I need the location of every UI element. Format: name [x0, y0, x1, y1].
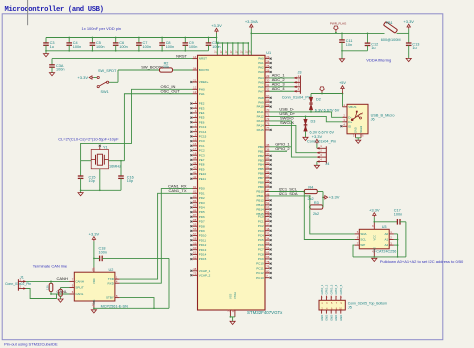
power +5V (VBUS)	[339, 81, 346, 107]
wire VDD stub	[230, 42, 235, 73]
wire R4/R3 to +3.3V	[317, 192, 324, 208]
pin PB12 (right 51)	[256, 197, 271, 203]
svg-text:GND: GND	[320, 315, 324, 321]
svg-text:PD10: PD10	[199, 234, 207, 238]
wire D2 to VBUS	[311, 93, 343, 95]
svg-text:58: 58	[193, 237, 197, 241]
svg-text:A2: A2	[385, 243, 389, 247]
svg-text:PB0: PB0	[258, 145, 264, 149]
wire CANL	[26, 289, 70, 299]
svg-text:PE2: PE2	[199, 102, 205, 106]
pin PD5 (left 86)	[190, 208, 205, 214]
svg-text:26: 26	[266, 68, 270, 72]
svg-text:J4: J4	[325, 162, 329, 166]
svg-text:SW1: SW1	[101, 90, 109, 94]
svg-text:VSS: VSS	[372, 247, 376, 252]
wire SPLIT	[61, 288, 70, 290]
svg-text:PC13: PC13	[256, 276, 264, 280]
svg-text:PC0: PC0	[258, 215, 264, 219]
svg-text:66: 66	[266, 255, 270, 259]
capacitor C3A	[49, 59, 64, 73]
svg-text:67: 67	[266, 94, 270, 98]
pin PA15 (right 77)	[257, 126, 272, 132]
svg-text:16: 16	[266, 218, 270, 222]
pin PD2 (left 83)	[190, 194, 205, 200]
svg-text:U2: U2	[109, 268, 114, 272]
svg-text:J3: J3	[298, 70, 302, 74]
svg-text:79: 79	[266, 265, 270, 269]
pin PD1 (left 82)	[193, 190, 205, 196]
svg-text:VBUS: VBUS	[348, 105, 356, 109]
wire VDD stub	[235, 42, 240, 73]
svg-text:100n: 100n	[394, 212, 402, 216]
svg-text:12: 12	[193, 86, 197, 90]
svg-text:+3.3V: +3.3V	[369, 207, 380, 212]
power +3.3V (VDD rail)	[211, 23, 222, 38]
wire crystal row	[81, 160, 125, 162]
svg-text:GPIO_5: GPIO_5	[339, 284, 343, 294]
wire VDD stub	[215, 42, 220, 73]
svg-text:PB11: PB11	[257, 194, 264, 198]
svg-text:100n: 100n	[189, 45, 197, 49]
power +3.3V (SW1)	[77, 75, 93, 80]
svg-text:PD12: PD12	[199, 243, 207, 247]
svg-text:PB1: PB1	[258, 149, 264, 153]
pin PC13 (left 7)	[190, 123, 206, 129]
pin PC2 (right 17)	[258, 222, 272, 228]
wire VDDA filter line	[251, 32, 384, 34]
svg-text:88: 88	[193, 218, 197, 222]
svg-text:1u: 1u	[371, 46, 375, 50]
note Pin-out	[4, 342, 58, 347]
svg-text:CANH: CANH	[75, 280, 84, 284]
wire VDD top rail	[46, 37, 217, 39]
pin PC14 (left 8)	[190, 128, 206, 134]
svg-text:100n: 100n	[96, 45, 104, 49]
ground (crystal)	[78, 190, 83, 196]
svg-text:72: 72	[266, 117, 270, 121]
stray vertical line top-left	[27, 0, 29, 25]
pin PD11 (left 58)	[190, 237, 206, 243]
svg-text:PC2: PC2	[258, 224, 264, 228]
svg-text:PD4: PD4	[199, 206, 205, 210]
pin PB15 (right 54)	[256, 210, 271, 216]
svg-text:+5V: +5V	[339, 81, 346, 85]
svg-text:OSC_OUT: OSC_OUT	[161, 89, 181, 94]
connector J1 Conn_01x02_Pin	[5, 276, 31, 291]
svg-text:VCAP_1: VCAP_1	[199, 269, 211, 273]
svg-text:10p: 10p	[89, 179, 95, 183]
svg-text:65: 65	[266, 251, 270, 255]
svg-text:47: 47	[266, 188, 270, 192]
svg-text:PD5: PD5	[199, 210, 205, 214]
svg-text:GND: GND	[334, 315, 338, 321]
svg-text:PE8: PE8	[199, 163, 205, 167]
svg-text:100n: 100n	[212, 45, 220, 49]
pin PC12 (right 80)	[256, 269, 272, 275]
wire SDA down	[309, 196, 355, 234]
connector J5 Conn_02x05_Top_Bottom	[319, 284, 387, 320]
pin PA12 (right 71)	[257, 111, 296, 118]
pin VREF+ (left 21)	[190, 78, 209, 84]
svg-text:PB3: PB3	[258, 158, 264, 162]
svg-text:PD1: PD1	[199, 191, 205, 195]
wire VDD stub	[220, 42, 225, 73]
svg-text:GPIO_1: GPIO_1	[320, 284, 324, 294]
svg-text:600@100M: 600@100M	[381, 38, 401, 42]
label NRST	[176, 53, 187, 58]
svg-text:FB1: FB1	[386, 21, 393, 25]
svg-text:D2: D2	[316, 98, 321, 102]
svg-text:GND: GND	[354, 127, 358, 133]
svg-text:17: 17	[193, 147, 197, 151]
pin PA10 (right 69)	[257, 103, 272, 109]
svg-text:78: 78	[266, 260, 270, 264]
svg-text:WP: WP	[360, 243, 365, 247]
ground (D3)	[303, 137, 308, 140]
svg-text:PA15: PA15	[257, 128, 264, 132]
wire SWCLK	[270, 125, 317, 152]
svg-text:CANH: CANH	[57, 276, 68, 281]
svg-text:90: 90	[266, 161, 270, 165]
svg-text:PB12: PB12	[256, 199, 264, 203]
pin PB11 (right 48)	[257, 191, 298, 198]
note Terminate CAN line	[33, 264, 68, 269]
pin PE4 (left 3)	[190, 109, 205, 115]
note 1x 100nF per VDD pin	[82, 26, 122, 31]
svg-text:+3.3V: +3.3V	[77, 75, 88, 80]
pin PC4 (right 33)	[258, 232, 272, 238]
pin PD13 (left 60)	[190, 246, 206, 252]
wire USB_D+	[270, 116, 343, 122]
svg-text:PE3: PE3	[199, 106, 205, 110]
capacitor C7	[136, 37, 151, 52]
pin PC3 (right 18)	[258, 227, 272, 233]
svg-text:60: 60	[193, 246, 197, 250]
svg-text:VREF+: VREF+	[199, 80, 209, 84]
capacitor C11	[339, 33, 352, 51]
svg-text:PH1: PH1	[199, 92, 205, 96]
svg-text:30: 30	[266, 79, 270, 83]
capacitor C9	[183, 37, 198, 52]
svg-text:PA5: PA5	[258, 80, 264, 84]
pin PB8 (right 95)	[258, 179, 272, 185]
wire FB1 to +3.3V	[397, 32, 409, 34]
svg-text:PD6: PD6	[199, 215, 205, 219]
svg-text:PA10: PA10	[257, 105, 264, 109]
svg-text:VSSA: VSSA	[233, 292, 237, 299]
pin PA3 (right 26)	[258, 68, 271, 74]
svg-text:39: 39	[193, 161, 197, 165]
svg-text:PD13: PD13	[199, 248, 207, 252]
label CANH	[57, 276, 68, 281]
ground (U2)	[91, 310, 96, 313]
svg-text:96: 96	[266, 183, 270, 187]
svg-text:86: 86	[193, 208, 197, 212]
wire USB_D-	[270, 111, 343, 117]
pin PC7 (right 64)	[258, 246, 272, 252]
wire STBY	[120, 298, 154, 309]
svg-text:56: 56	[193, 227, 197, 231]
svg-text:U3: U3	[382, 225, 387, 229]
capacitor C16	[118, 161, 134, 191]
svg-text:69: 69	[266, 103, 270, 107]
svg-text:GPIO_2: GPIO_2	[325, 284, 329, 294]
svg-text:6.3V 6.67V 6V: 6.3V 6.67V 6V	[315, 108, 340, 112]
svg-text:R4: R4	[308, 185, 313, 189]
pin PB14 (right 53)	[256, 206, 271, 212]
pin PC1 (left 16)	[190, 142, 205, 148]
wire +3.3V stem to VDD bus	[216, 38, 218, 44]
svg-text:PD3: PD3	[199, 201, 205, 205]
ground (C13)	[406, 58, 411, 61]
svg-text:41: 41	[193, 170, 197, 174]
svg-text:PB5: PB5	[258, 167, 264, 171]
svg-text:48: 48	[193, 267, 197, 271]
connector J3 Conn_01x04_Pin	[282, 70, 311, 99]
svg-text:37: 37	[266, 152, 270, 156]
svg-text:PB8: PB8	[258, 181, 264, 185]
wire VDD stub	[225, 42, 230, 73]
pin PE3 (left 2)	[190, 105, 205, 111]
capacitor C17	[374, 208, 406, 224]
svg-text:CL=2*(CL0-Cs)=2*(10-5)pF+10pF: CL=2*(CL0-Cs)=2*(10-5)pF+10pF	[58, 137, 119, 142]
pin PB2 (right 37)	[258, 152, 272, 158]
wire VDD pin bus	[217, 42, 249, 44]
svg-text:PC14: PC14	[199, 130, 207, 134]
wire I2C1_SCL	[270, 191, 306, 193]
svg-text:91: 91	[266, 165, 270, 169]
pin VCAP_1 (left 48)	[190, 267, 210, 273]
svg-text:PB10: PB10	[256, 190, 264, 194]
wire crystal gnd rail	[80, 189, 121, 191]
power +3.3V (after FB1)	[403, 19, 414, 33]
CAN transceiver U2 MCP2561	[70, 267, 129, 308]
crystal Y1	[91, 145, 121, 191]
wire ADC_1	[270, 77, 295, 79]
svg-text:+3.3VA: +3.3VA	[245, 19, 258, 24]
svg-text:PD9: PD9	[199, 229, 205, 233]
wire ADC_4	[270, 90, 295, 92]
svg-text:PE4: PE4	[199, 111, 205, 115]
svg-text:18: 18	[266, 227, 270, 231]
svg-text:CAT24C256: CAT24C256	[376, 249, 396, 253]
svg-text:PA1: PA1	[258, 61, 264, 65]
wire ADC_2	[270, 81, 295, 83]
svg-text:GPIO_4: GPIO_4	[334, 284, 338, 294]
svg-text:34: 34	[266, 236, 270, 240]
svg-text:21: 21	[193, 78, 197, 82]
pin PA13 (right 72)	[257, 116, 294, 123]
note CL formula	[58, 137, 119, 142]
svg-text:100n: 100n	[73, 45, 81, 49]
pin PA14 (right 76)	[257, 120, 295, 127]
pin PC9 (right 66)	[258, 255, 272, 261]
svg-text:82: 82	[193, 190, 197, 194]
ground (SWD pin4)	[314, 162, 319, 169]
pin PH1 (left 13)	[193, 90, 205, 96]
svg-text:PA13: PA13	[257, 119, 264, 123]
svg-text:10p: 10p	[127, 179, 133, 183]
svg-text:33: 33	[266, 232, 270, 236]
pin PE6 (left 5)	[190, 119, 205, 125]
label CAN1_TX	[168, 188, 186, 193]
svg-text:77: 77	[266, 126, 270, 130]
svg-text:PC4: PC4	[258, 234, 264, 238]
USB connector J6 USB_B_Micro	[340, 103, 394, 140]
pin PA4 (right 29)	[258, 73, 285, 80]
svg-text:61: 61	[193, 251, 197, 255]
note VDDA filtering	[366, 58, 391, 63]
ground below C3	[43, 50, 48, 57]
svg-text:25: 25	[266, 64, 270, 68]
capacitor C10	[206, 37, 221, 51]
svg-text:SDA: SDA	[360, 232, 366, 236]
svg-text:A0: A0	[385, 232, 389, 236]
ground (J6)	[356, 140, 361, 143]
pin PA1 (right 24)	[258, 59, 271, 65]
wire ADC_3	[270, 86, 295, 88]
svg-text:PD8: PD8	[199, 224, 205, 228]
wire SWDIO	[270, 121, 317, 157]
svg-text:PA0: PA0	[258, 57, 264, 61]
svg-text:PC0: PC0	[199, 139, 205, 143]
svg-text:93: 93	[266, 174, 270, 178]
svg-text:63: 63	[266, 241, 270, 245]
svg-text:76: 76	[266, 122, 270, 126]
svg-text:PB14: PB14	[256, 207, 264, 211]
svg-text:GPIO_3: GPIO_3	[329, 284, 333, 294]
pin PA8 (right 67)	[258, 94, 271, 100]
label CANL	[57, 289, 68, 294]
svg-text:31: 31	[266, 83, 270, 87]
svg-text:PD14: PD14	[199, 253, 207, 257]
wire NRST	[52, 58, 193, 60]
note pulldown	[380, 259, 464, 264]
svg-text:+3.3V: +3.3V	[329, 195, 340, 200]
svg-text:Conn_01x04_Pin: Conn_01x04_Pin	[282, 95, 311, 99]
power +3.3V (U3)	[369, 207, 380, 222]
svg-text:100n: 100n	[143, 45, 151, 49]
wire VDD stub	[246, 42, 251, 73]
wire VDD stub	[241, 42, 246, 73]
svg-text:16: 16	[193, 142, 197, 146]
svg-text:D-: D-	[348, 115, 351, 119]
svg-text:84: 84	[193, 199, 197, 203]
pin PD3 (left 84)	[190, 199, 205, 205]
svg-text:62: 62	[193, 255, 197, 259]
wire GPIO_1	[270, 146, 292, 148]
wire CAN1_TX	[120, 193, 193, 279]
pin PC10 (right 78)	[256, 260, 272, 266]
svg-text:PC13: PC13	[199, 125, 207, 129]
pin PD10 (left 57)	[190, 232, 206, 238]
svg-text:35: 35	[266, 143, 270, 147]
ground (U3)	[372, 258, 377, 261]
svg-text:NRST: NRST	[176, 53, 187, 58]
svg-text:PC7: PC7	[258, 248, 264, 252]
svg-text:80: 80	[266, 269, 270, 273]
pin PD15 (left 62)	[190, 255, 206, 261]
resistor R2	[160, 62, 173, 72]
pin PC15 (left 9)	[190, 133, 206, 139]
svg-text:29: 29	[266, 74, 270, 78]
svg-text:71: 71	[266, 113, 270, 117]
svg-text:15: 15	[266, 213, 270, 217]
pin PB7 (right 93)	[258, 174, 272, 180]
svg-text:PD7: PD7	[199, 220, 205, 224]
svg-text:10n: 10n	[346, 43, 352, 47]
svg-text:STM32F407VGTx: STM32F407VGTx	[247, 310, 283, 315]
wire CANH	[26, 281, 70, 283]
ground (MCU)	[230, 321, 235, 324]
pin PC5 (right 34)	[258, 236, 272, 242]
svg-text:PC3: PC3	[199, 153, 205, 157]
svg-text:PC8: PC8	[258, 252, 264, 256]
svg-text:J6: J6	[371, 118, 375, 122]
svg-text:100n: 100n	[56, 68, 64, 72]
svg-text:PB6: PB6	[258, 172, 264, 176]
svg-text:89: 89	[266, 156, 270, 160]
svg-text:57: 57	[193, 232, 197, 236]
svg-text:PC6: PC6	[258, 243, 264, 247]
power +3.3V (U2)	[89, 231, 100, 267]
pin VDDA (MCU top)	[249, 50, 254, 75]
ferrite bead FB1	[381, 21, 401, 42]
power flag PWR_FLAG	[330, 21, 347, 33]
pin PC1 (right 16)	[258, 218, 272, 224]
pin PB13 (right 52)	[256, 201, 271, 207]
resistor R3	[310, 201, 323, 216]
resistor R4	[304, 185, 317, 201]
svg-text:Conn_01x04_Pin: Conn_01x04_Pin	[307, 139, 336, 143]
svg-text:100n: 100n	[119, 45, 127, 49]
svg-text:PB13: PB13	[256, 203, 264, 207]
svg-text:83: 83	[193, 194, 197, 198]
capacitor C13	[406, 33, 419, 58]
svg-text:17: 17	[266, 222, 270, 226]
svg-text:14: 14	[193, 55, 197, 59]
wire C18 to gnd	[168, 258, 170, 308]
wire OSC_OUT	[124, 94, 192, 161]
title Microcontroller (and USB)	[5, 6, 104, 14]
svg-text:16MHz: 16MHz	[109, 164, 121, 168]
svg-text:VCAP_2: VCAP_2	[199, 273, 211, 277]
svg-text:GND: GND	[329, 315, 333, 321]
pin PD7 (left 88)	[190, 218, 205, 224]
svg-text:GND: GND	[339, 315, 343, 321]
svg-text:+3.3V: +3.3V	[403, 19, 414, 24]
wire GPIO_2	[270, 150, 288, 152]
svg-text:PA11: PA11	[257, 110, 264, 114]
pin PD9 (left 56)	[190, 227, 205, 233]
svg-text:Microcontroller (and USB): Microcontroller (and USB)	[5, 6, 104, 14]
svg-text:SCL: SCL	[360, 238, 366, 242]
svg-text:42: 42	[193, 175, 197, 179]
svg-text:1u: 1u	[412, 46, 416, 50]
pin PE7 (left 38)	[190, 156, 205, 162]
svg-text:D3: D3	[311, 119, 316, 123]
svg-text:2k2: 2k2	[313, 212, 319, 216]
svg-text:PA9: PA9	[258, 100, 264, 104]
pin PC0 (right 15)	[258, 213, 272, 219]
svg-text:PC15: PC15	[199, 135, 207, 139]
svg-text:PA14: PA14	[257, 124, 264, 128]
svg-text:PA3: PA3	[258, 70, 264, 74]
capacitor C5	[90, 37, 105, 52]
label OSC_OUT	[161, 89, 181, 94]
capacitor C8	[159, 37, 174, 52]
